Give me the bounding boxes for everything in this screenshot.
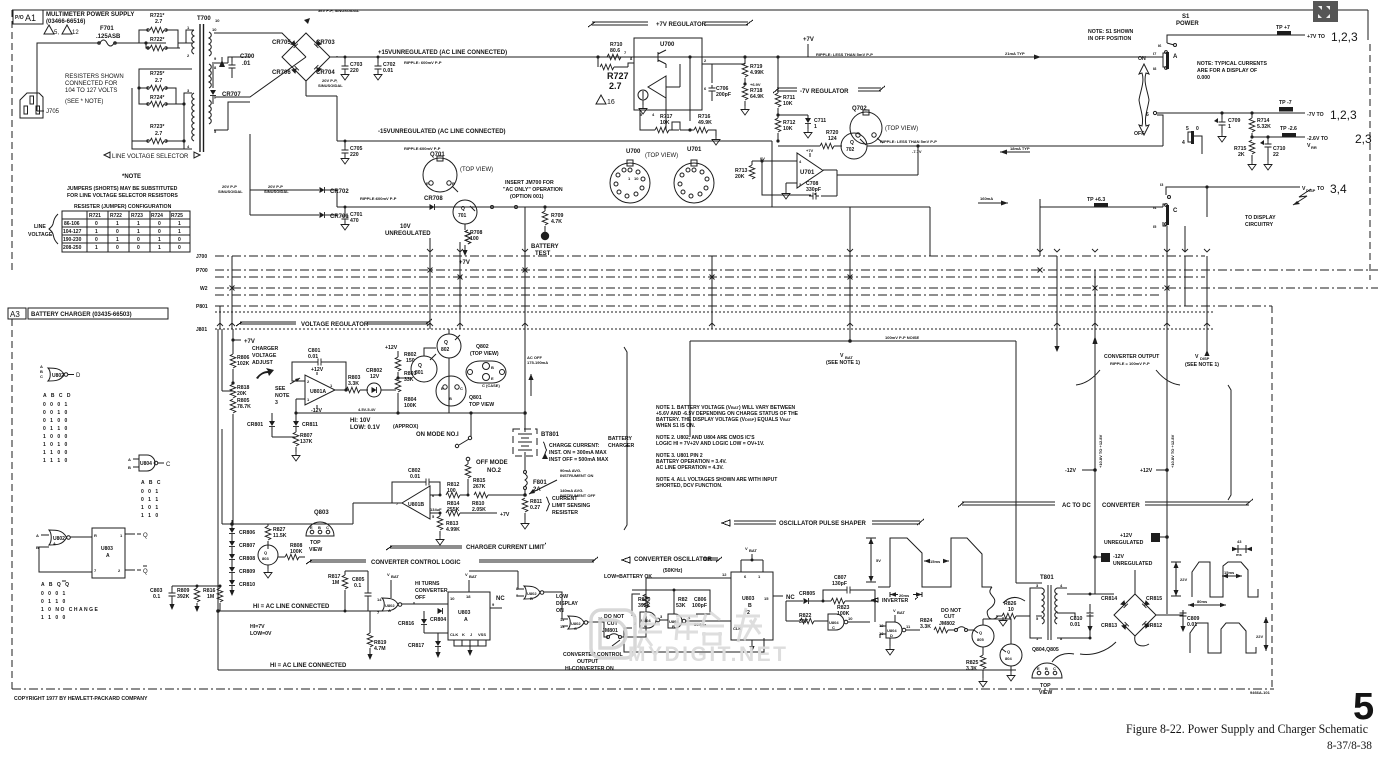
svg-text:+12V: +12V xyxy=(385,345,398,351)
svg-text:3.3K: 3.3K xyxy=(966,666,977,672)
svg-text:0 0 0 1: 0 0 0 1 xyxy=(43,402,69,408)
svg-text:A: A xyxy=(388,608,391,613)
svg-text:C700: C700 xyxy=(240,54,255,60)
svg-text:1 0 NO CHANGE: 1 0 NO CHANGE xyxy=(41,607,99,613)
svg-text:TOP VIEW: TOP VIEW xyxy=(469,402,494,408)
resistor R718 xyxy=(742,86,748,100)
svg-text:Q: Q xyxy=(850,140,854,146)
svg-text:0: 0 xyxy=(178,245,181,251)
svg-text:C (CASE): C (CASE) xyxy=(482,383,500,388)
resistor R727 xyxy=(597,57,599,67)
svg-text:RR: RR xyxy=(1311,145,1317,150)
svg-text:NOTE: NOTE xyxy=(275,393,290,399)
svg-text:Q804,Q805: Q804,Q805 xyxy=(1032,647,1059,653)
svg-text:OFF: OFF xyxy=(415,595,425,601)
svg-text:CHARGER CURRENT LIMIT: CHARGER CURRENT LIMIT xyxy=(466,545,545,551)
transistor Q801 xyxy=(411,356,437,382)
svg-text:P/O: P/O xyxy=(15,15,24,21)
svg-text:C: C xyxy=(326,525,329,530)
svg-text:A: A xyxy=(128,457,131,462)
svg-text:1 0 1 0: 1 0 1 0 xyxy=(43,442,69,448)
svg-text:134uF: 134uF xyxy=(430,507,442,512)
node CONVERTER OSCILLATOR banner xyxy=(622,557,722,563)
node down arrow x1057 xyxy=(1056,338,1058,346)
svg-text:*NOTE: *NOTE xyxy=(122,174,141,180)
svg-text:11.5K: 11.5K xyxy=(273,533,287,539)
svg-text:S1: S1 xyxy=(1182,14,1190,20)
svg-text:TOP: TOP xyxy=(310,540,321,546)
svg-text:5V: 5V xyxy=(876,558,881,563)
connector J705 xyxy=(20,93,43,118)
node A3 label box xyxy=(8,308,26,319)
wire adjust tap xyxy=(222,329,233,391)
svg-text:BAT: BAT xyxy=(391,574,399,579)
svg-text:TP +6.3: TP +6.3 xyxy=(1087,197,1105,203)
svg-text:137K: 137K xyxy=(300,439,313,445)
transistor Q804 xyxy=(1000,644,1022,666)
svg-text:CHARGE CURRENT:: CHARGE CURRENT: xyxy=(549,443,600,449)
svg-text:JUMPERS (SHORTS) MAY BE SUBSTI: JUMPERS (SHORTS) MAY BE SUBSTITUTED xyxy=(67,186,178,192)
svg-text:1 1 0: 1 1 0 xyxy=(141,513,160,519)
svg-text:ON: ON xyxy=(556,608,564,614)
wire -7v reg enclosure xyxy=(772,141,930,207)
wire right verticals to bus xyxy=(1206,187,1208,217)
svg-text:CR815: CR815 xyxy=(1146,596,1162,602)
gate U804B osc xyxy=(668,614,682,628)
svg-text:CR805: CR805 xyxy=(799,591,815,597)
svg-text:49.9K: 49.9K xyxy=(698,120,712,126)
svg-text:ms: ms xyxy=(1236,552,1243,557)
svg-text:B: B xyxy=(1045,666,1048,671)
svg-text:Q: Q xyxy=(979,630,982,635)
capacitor C706 xyxy=(711,85,713,87)
svg-text:VOLTAGE REGULATOR: VOLTAGE REGULATOR xyxy=(301,322,369,328)
svg-text:(TOP VIEW): (TOP VIEW) xyxy=(645,153,678,159)
svg-text:SEE: SEE xyxy=(275,386,286,392)
svg-text:12: 12 xyxy=(72,30,79,36)
svg-text:LINE VOLTAGE SELECTOR: LINE VOLTAGE SELECTOR xyxy=(112,154,189,160)
svg-text:+12V: +12V xyxy=(1120,533,1133,539)
svg-text:804: 804 xyxy=(1005,656,1012,661)
svg-text:MULTIMETER POWER SUPPLY: MULTIMETER POWER SUPPLY xyxy=(46,12,134,18)
svg-text:E: E xyxy=(491,376,494,381)
svg-text:OSCILLATOR PULSE SHAPER: OSCILLATOR PULSE SHAPER xyxy=(779,521,866,527)
node 43ms arrow xyxy=(1232,545,1252,553)
svg-text:INST. ON = 300mA MAX: INST. ON = 300mA MAX xyxy=(549,450,607,456)
gate U802C xyxy=(568,616,584,629)
svg-text:CIRCUITRY: CIRCUITRY xyxy=(1245,222,1274,228)
svg-text:P700: P700 xyxy=(196,268,208,274)
node VDISP wire down xyxy=(1206,330,1208,356)
svg-text:RIPPLE:600mV P-P: RIPPLE:600mV P-P xyxy=(404,146,441,151)
svg-text:1: 1 xyxy=(95,229,98,235)
resistor R715 xyxy=(1249,140,1255,154)
svg-text:Q: Q xyxy=(143,533,148,539)
svg-text:CR810: CR810 xyxy=(239,582,255,588)
resistor R813 xyxy=(437,516,443,530)
battery BT801 xyxy=(513,429,537,456)
svg-text:V: V xyxy=(387,572,390,577)
svg-text:0: 0 xyxy=(95,237,98,243)
node current limit sensing xyxy=(546,497,550,511)
svg-text:-7V TO: -7V TO xyxy=(1307,112,1324,118)
svg-text:1: 1 xyxy=(137,221,140,227)
svg-text:K: K xyxy=(462,632,465,637)
wire VBAT box verticals xyxy=(690,341,1016,583)
svg-text:0.27: 0.27 xyxy=(530,505,540,511)
wire long minus feed xyxy=(222,523,353,525)
svg-text:-7V REGULATOR: -7V REGULATOR xyxy=(800,89,849,95)
svg-text:E: E xyxy=(426,181,429,186)
svg-text:A: A xyxy=(106,553,110,559)
bus crossing ticks top xyxy=(427,249,1210,252)
svg-text:LINE: LINE xyxy=(34,224,46,230)
wire CR701/2 joins xyxy=(250,134,340,215)
svg-text:+6.9V: +6.9V xyxy=(750,82,761,87)
node 80ms arrow xyxy=(1188,604,1226,606)
svg-text:100pF: 100pF xyxy=(692,603,707,609)
svg-text:DISPLAY: DISPLAY xyxy=(556,601,579,607)
svg-text:E: E xyxy=(441,386,444,391)
node -7V REGULATOR banner xyxy=(773,86,885,93)
svg-text:-15VUNREGULATED (AC LINE CONN: -15VUNREGULATED (AC LINE CONNECTED) xyxy=(378,129,506,135)
diode CR701 xyxy=(320,212,325,218)
svg-text:330pF: 330pF xyxy=(806,187,821,193)
svg-text:B: B xyxy=(128,465,131,470)
node: warning triangles 5,12 xyxy=(44,25,54,34)
node 15ms arrow right xyxy=(1222,575,1242,577)
svg-text:130pF: 130pF xyxy=(832,581,847,587)
svg-text:2,3: 2,3 xyxy=(1355,132,1372,146)
svg-text:V: V xyxy=(465,572,468,577)
fuse F801 xyxy=(524,456,526,470)
svg-text:Q702: Q702 xyxy=(852,106,867,112)
svg-text:D: D xyxy=(76,373,81,379)
svg-text:U801A: U801A xyxy=(310,389,326,395)
svg-text:0: 0 xyxy=(178,237,181,243)
svg-text:HI-CONVERTER ON: HI-CONVERTER ON xyxy=(565,666,614,672)
transistor Q701 xyxy=(453,200,477,224)
svg-text:22V: 22V xyxy=(1180,577,1187,582)
svg-text:UNREGULATED: UNREGULATED xyxy=(1113,561,1153,567)
svg-text:(50KHz): (50KHz) xyxy=(663,568,683,574)
svg-text:HI = AC LINE CONNECTED: HI = AC LINE CONNECTED xyxy=(253,604,330,610)
wire W2 row xyxy=(215,287,1378,289)
node 20ms arrows xyxy=(890,592,922,597)
svg-text:AC LINE OPERATION = 4.3V.: AC LINE OPERATION = 4.3V. xyxy=(656,465,724,471)
svg-text:4.7K: 4.7K xyxy=(551,219,562,225)
svg-text:CR707: CR707 xyxy=(222,92,241,98)
resistor R719 xyxy=(743,55,746,58)
svg-text:V: V xyxy=(893,608,896,613)
svg-text:CR806: CR806 xyxy=(239,530,255,536)
svg-text:"AC ONLY" OPERATION: "AC ONLY" OPERATION xyxy=(503,187,563,193)
resistor R810 xyxy=(474,492,488,498)
svg-text:B: B xyxy=(452,181,455,186)
node AC TO DC CONVERTER banner xyxy=(958,499,1253,507)
svg-text:1 0 0 0: 1 0 0 0 xyxy=(43,434,69,440)
node swoosh to T801 xyxy=(987,587,1025,619)
svg-text:TP +7: TP +7 xyxy=(1276,25,1290,31)
svg-text:TO: TO xyxy=(1317,186,1324,192)
svg-text:100K: 100K xyxy=(290,549,303,555)
svg-text:TP -2.6: TP -2.6 xyxy=(1280,126,1297,132)
svg-text:10K: 10K xyxy=(660,120,670,126)
svg-text:LOGIC HI = 7V+2V AND LOGIC LOW: LOGIC HI = 7V+2V AND LOGIC LOW = OV+1V. xyxy=(656,441,765,447)
svg-text:TP -7: TP -7 xyxy=(1279,100,1292,106)
wire A3 left dashed border xyxy=(11,319,13,689)
svg-text:470: 470 xyxy=(350,218,359,224)
svg-text:100mV P-P NOISE: 100mV P-P NOISE xyxy=(885,335,919,340)
wire -7V output row xyxy=(1153,111,1156,114)
svg-text:+10.8V TO +12.8V: +10.8V TO +12.8V xyxy=(1170,434,1175,468)
wire bridge connections xyxy=(1067,570,1168,638)
svg-text:U700: U700 xyxy=(660,42,675,48)
svg-text:CR801: CR801 xyxy=(247,422,263,428)
svg-text:802: 802 xyxy=(441,347,450,353)
svg-text:CHARGER: CHARGER xyxy=(252,346,278,352)
svg-text:BAT: BAT xyxy=(749,548,757,553)
transistor Q805 xyxy=(972,625,994,647)
svg-text:15: 15 xyxy=(764,596,769,601)
svg-text:HI = AC LINE CONNECTED: HI = AC LINE CONNECTED xyxy=(270,663,347,669)
svg-text:NOTE: TYPICAL CURRENTS: NOTE: TYPICAL CURRENTS xyxy=(1197,61,1267,67)
svg-text:0 0 1 0: 0 0 1 0 xyxy=(43,410,69,416)
svg-text:255K: 255K xyxy=(447,507,460,513)
svg-text:U801B: U801B xyxy=(408,502,424,508)
svg-text:1: 1 xyxy=(158,245,161,251)
svg-text:V: V xyxy=(745,546,748,551)
svg-text:CONVERTER OSCILLATOR: CONVERTER OSCILLATOR xyxy=(634,557,712,563)
svg-text:12V: 12V xyxy=(370,374,380,380)
svg-text:R722: R722 xyxy=(110,213,122,219)
capacitor C705 xyxy=(344,141,346,147)
svg-text:102K: 102K xyxy=(237,361,250,367)
svg-text:0.1: 0.1 xyxy=(354,583,361,589)
wire U801B pin5 row xyxy=(430,512,497,514)
resistor R708 xyxy=(464,224,466,230)
svg-text:TO DISPLAY: TO DISPLAY xyxy=(1245,215,1276,221)
svg-text:4: 4 xyxy=(1182,140,1185,146)
resistor R714 xyxy=(1250,111,1253,114)
wire VBAT to T801 xyxy=(1016,583,1042,616)
svg-text:CR704: CR704 xyxy=(316,70,335,76)
svg-text:Q: Q xyxy=(1007,649,1010,654)
svg-text:NC: NC xyxy=(496,596,505,602)
bridge CR703/704/705/706 xyxy=(282,33,330,81)
svg-text:100: 100 xyxy=(447,488,456,494)
gate U804C xyxy=(828,614,844,630)
svg-text:+10.8V TO +12.8V: +10.8V TO +12.8V xyxy=(1098,434,1103,468)
svg-text:R723: R723 xyxy=(131,213,143,219)
node INVERTER banner xyxy=(872,597,918,602)
svg-text:10: 10 xyxy=(1008,607,1014,613)
svg-text:V: V xyxy=(1195,354,1199,360)
svg-text:-12V: -12V xyxy=(1065,468,1076,474)
svg-text:SINUSOIDAL: SINUSOIDAL xyxy=(218,189,243,194)
svg-text:DISP: DISP xyxy=(1200,356,1210,361)
svg-text:3,4: 3,4 xyxy=(1330,182,1347,196)
transistor Q801 top view xyxy=(436,376,466,406)
svg-text:DISP: DISP xyxy=(1306,188,1316,193)
svg-text:NO.2: NO.2 xyxy=(487,468,502,474)
svg-text:0: 0 xyxy=(1196,126,1199,132)
svg-text:0 0 1: 0 0 1 xyxy=(141,489,160,495)
node -12V UNREGULATED xyxy=(1101,553,1110,562)
svg-text:CR706: CR706 xyxy=(272,70,291,76)
svg-text:803: 803 xyxy=(262,556,269,561)
wire J700 row xyxy=(215,255,1205,257)
svg-text:CURRENT: CURRENT xyxy=(552,496,578,502)
wire +12V converter feed xyxy=(1094,332,1096,594)
capacitor C709 xyxy=(1220,111,1223,114)
svg-text:0: 0 xyxy=(137,237,140,243)
svg-text:1M: 1M xyxy=(332,580,339,586)
svg-text:1 1 1 0: 1 1 1 0 xyxy=(43,458,69,464)
svg-text:160mA: 160mA xyxy=(980,196,993,201)
svg-text:100: 100 xyxy=(470,236,479,242)
svg-text:POWER: POWER xyxy=(1176,21,1199,27)
svg-text:BATTERY CHARGER (03435-66503): BATTERY CHARGER (03435-66503) xyxy=(31,312,132,318)
svg-text:0 1 1 0: 0 1 1 0 xyxy=(41,599,67,605)
resistor R709 xyxy=(543,205,546,208)
node swoosh bottom bridge xyxy=(1052,642,1116,662)
svg-text:R721: R721 xyxy=(89,213,101,219)
svg-text:702: 702 xyxy=(846,147,855,153)
node truth table U802D xyxy=(43,393,72,464)
svg-text:BT801: BT801 xyxy=(541,432,560,438)
capacitor C703 xyxy=(344,57,346,63)
svg-text:1: 1 xyxy=(158,237,161,243)
wire P700 row xyxy=(215,269,1378,271)
wire main vertical x525 xyxy=(524,329,526,429)
svg-text:10: 10 xyxy=(634,176,639,181)
svg-text:BATTERY: BATTERY xyxy=(608,436,632,442)
capacitor C710 xyxy=(1266,135,1269,138)
gate U804D xyxy=(886,622,902,638)
svg-text:C: C xyxy=(40,374,43,379)
wire Q702 to -7V rail xyxy=(867,145,1163,147)
wire JM801 out xyxy=(632,578,646,637)
-15V rail xyxy=(337,140,772,142)
svg-text:TOP: TOP xyxy=(1040,683,1051,689)
svg-text:1: 1 xyxy=(137,229,140,235)
svg-text:JM802: JM802 xyxy=(939,621,955,627)
node CONVERTER CONTROL LOGIC banner xyxy=(306,557,598,564)
transistor Q802 circle xyxy=(437,334,461,358)
svg-text:18: 18 xyxy=(466,594,471,599)
svg-text:B: B xyxy=(449,396,452,401)
switch OFF MODE NO.2 xyxy=(469,465,471,467)
svg-text:J700: J700 xyxy=(196,254,207,260)
svg-text:0.01: 0.01 xyxy=(308,354,318,360)
transistor inside U700 xyxy=(648,50,666,68)
svg-text:INSTRUMENT ON: INSTRUMENT ON xyxy=(560,473,593,478)
svg-text:+7V: +7V xyxy=(803,37,814,43)
svg-text:+7V: +7V xyxy=(500,512,510,518)
svg-text:R724*: R724* xyxy=(150,95,165,101)
IC U803A latch xyxy=(92,528,125,578)
svg-text:A B C: A B C xyxy=(141,480,162,486)
gate U802B xyxy=(524,586,540,599)
svg-text:+7V: +7V xyxy=(459,260,470,266)
diode CR816 xyxy=(421,619,427,625)
svg-text:U803: U803 xyxy=(742,596,755,602)
wire +6.3 row xyxy=(1040,206,1163,208)
svg-text:B: B xyxy=(748,603,752,609)
svg-text:Figure 8-22. Power Supply and: Figure 8-22. Power Supply and Charger Sc… xyxy=(1126,721,1368,736)
wire P801 row xyxy=(215,305,1272,307)
node 15ms arrows xyxy=(924,560,949,562)
svg-text:14: 14 xyxy=(377,597,382,602)
diode CR707 xyxy=(210,90,216,96)
svg-text:1: 1 xyxy=(116,237,119,243)
svg-text:6: 6 xyxy=(1146,112,1149,118)
node 22V arrow left xyxy=(1171,562,1181,596)
wire -12V converter feed xyxy=(1166,332,1168,614)
bus tick x marks xyxy=(217,268,1210,327)
transistor Q-BC xyxy=(258,545,278,565)
node battery test xyxy=(541,232,549,240)
svg-text:HI=7V: HI=7V xyxy=(250,624,265,630)
svg-text:0.000: 0.000 xyxy=(1197,75,1210,81)
svg-text:20ms: 20ms xyxy=(899,593,910,598)
svg-text:A: A xyxy=(1173,54,1178,60)
svg-text:+7V REGULATOR: +7V REGULATOR xyxy=(656,22,707,28)
svg-text:U700: U700 xyxy=(626,149,641,155)
resistor R827 xyxy=(232,524,268,526)
svg-text:R724: R724 xyxy=(151,213,163,219)
svg-text:C: C xyxy=(1053,666,1056,671)
svg-text:392K: 392K xyxy=(177,594,190,600)
svg-text:20K: 20K xyxy=(237,391,247,397)
bridge CR814/15/13/12 xyxy=(1114,594,1156,636)
wire bridge bottom to -15V rail xyxy=(306,81,337,96)
svg-text:A: A xyxy=(53,541,56,546)
diode C711 zener xyxy=(778,115,808,118)
gate U802A conv xyxy=(382,598,398,611)
wire HI=AC line (lower) xyxy=(218,669,1016,671)
svg-text:HI TURNS: HI TURNS xyxy=(415,581,440,587)
svg-text:VIEW: VIEW xyxy=(309,547,322,553)
svg-text:RIPPLE: LESS THAN 5mV P-P: RIPPLE: LESS THAN 5mV P-P xyxy=(880,139,937,144)
svg-text:Q: Q xyxy=(444,340,448,346)
svg-text:16: 16 xyxy=(607,99,615,106)
node waveform 5V arrows xyxy=(870,538,872,580)
svg-text:ON MODE NO.I: ON MODE NO.I xyxy=(416,432,459,438)
svg-text:1,2,3: 1,2,3 xyxy=(1331,30,1358,44)
svg-text:(SEE NOTE 1): (SEE NOTE 1) xyxy=(1185,362,1219,368)
svg-text:(APPROX): (APPROX) xyxy=(393,424,419,430)
svg-text:104 TO 127 VOLTS: 104 TO 127 VOLTS xyxy=(65,88,117,94)
svg-text:Q801: Q801 xyxy=(469,395,482,401)
svg-text:OFF: OFF xyxy=(1134,131,1144,137)
svg-text:CR816: CR816 xyxy=(398,621,414,627)
svg-text:175-190mA: 175-190mA xyxy=(527,360,548,365)
svg-text:1M: 1M xyxy=(207,594,214,600)
svg-text:0.01: 0.01 xyxy=(383,68,393,74)
svg-text:C: C xyxy=(1173,208,1178,214)
svg-text:1: 1 xyxy=(178,229,181,235)
svg-text:SINUSOIDAL: SINUSOIDAL xyxy=(318,83,343,88)
svg-text:10: 10 xyxy=(848,616,853,621)
svg-text:+7V TO: +7V TO xyxy=(1307,34,1325,40)
wire: A1 right border xyxy=(1367,10,1369,40)
wire +7V rail drop x690 xyxy=(689,57,691,121)
svg-text:A B C D: A B C D xyxy=(43,393,72,399)
wire A3 right dashed border xyxy=(1271,306,1273,689)
node 18mA arrow xyxy=(1000,151,1030,153)
